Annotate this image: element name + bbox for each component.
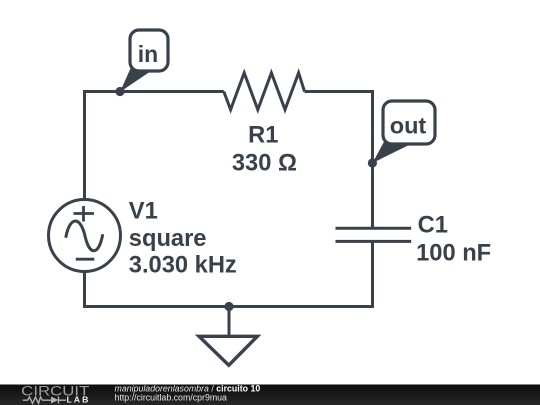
svg-text:330 Ω: 330 Ω — [232, 151, 297, 177]
svg-text:out: out — [390, 113, 427, 139]
svg-text:V1: V1 — [129, 198, 158, 224]
svg-text:LAB: LAB — [67, 395, 91, 405]
svg-text:R1: R1 — [248, 123, 278, 149]
svg-text:3.030 kHz: 3.030 kHz — [129, 252, 237, 278]
svg-text:C1: C1 — [418, 213, 448, 239]
svg-text:in: in — [138, 41, 158, 67]
svg-text:square: square — [129, 226, 207, 252]
svg-text:100 nF: 100 nF — [416, 240, 491, 266]
svg-text:http://circuitlab.com/cpr9mua: http://circuitlab.com/cpr9mua — [115, 393, 228, 403]
